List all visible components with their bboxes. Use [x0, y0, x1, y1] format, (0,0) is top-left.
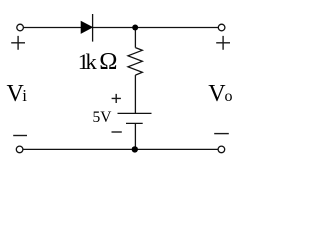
minus sign output terminal: [214, 133, 229, 135]
terminal circle bottom-left: [16, 146, 23, 153]
minus sign input terminal: [13, 135, 27, 137]
junction dot bottom node: [132, 146, 138, 152]
wire top rail right (diode cathode to output terminal): [93, 27, 219, 29]
svg-text:5V: 5V: [93, 109, 113, 126]
svg-text:Vi: Vi: [7, 81, 28, 107]
svg-text:Vo: Vo: [208, 81, 232, 107]
wire resistor bottom to battery plus plate: [134, 75, 136, 113]
battery 5V short plate (-): [126, 122, 143, 124]
wire top rail left (terminal to diode anode): [24, 27, 81, 29]
diode cathode bar: [92, 14, 94, 42]
svg-text:Ω: Ω: [99, 48, 117, 75]
wire battery minus plate to bottom rail: [134, 123, 136, 149]
terminal circle top-left: [17, 24, 24, 31]
terminal circle bottom-right: [218, 146, 225, 153]
battery plus mark: [112, 94, 121, 103]
resistor 1k ohm (zigzag): [128, 48, 142, 76]
battery 5V long plate (+): [118, 112, 152, 114]
battery minus mark: [112, 131, 122, 133]
terminal circle top-right: [218, 24, 225, 31]
plus sign input terminal: [11, 36, 25, 50]
plus sign output terminal: [216, 36, 230, 50]
svg-text:1k: 1k: [78, 49, 98, 74]
wire junction to resistor top: [134, 28, 136, 48]
diode (filled triangle, anode): [81, 21, 93, 33]
junction dot top node: [132, 25, 138, 31]
wire bottom rail: [23, 148, 218, 150]
